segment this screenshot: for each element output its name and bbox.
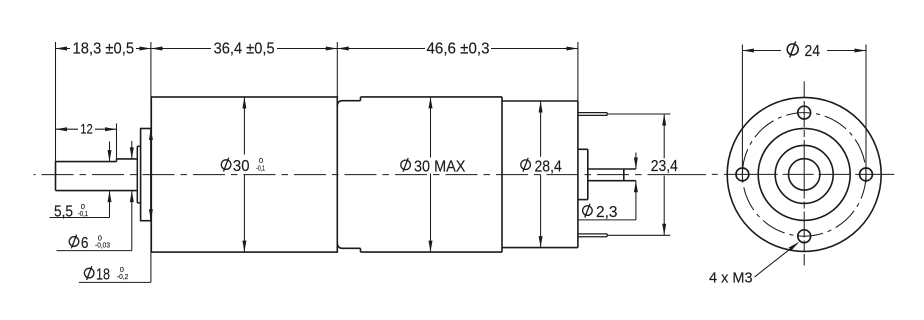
dimension dia 18 0/-0,2 flange [149, 129, 153, 141]
rear shaft stub dia 2.3 [588, 168, 636, 170]
mounting hole bottom M3 [798, 230, 811, 243]
dimension 23,4 terminal span [607, 113, 670, 115]
motor rear dia 28.4 section [502, 100, 578, 102]
motor neck with rounded corners [337, 101, 360, 106]
rear bearing boss [578, 148, 588, 150]
dimension 18,3 +-0,5 [56, 48, 151, 50]
svg-text:46,6 ±0,3: 46,6 ±0,3 [427, 41, 490, 58]
bottom terminal tab [578, 233, 607, 235]
mounting hole right M3 [860, 168, 873, 181]
front view shaft circle dia 6 [789, 159, 820, 190]
dimension 36,4 +-0,5 [151, 48, 337, 50]
front view outer circle dia 30 [727, 97, 881, 251]
svg-text:2,3: 2,3 [596, 204, 618, 221]
svg-text:30: 30 [233, 158, 250, 175]
dimension dia 6 0/-0,03 shaft [131, 141, 133, 159]
dimension dia 2,3 rear shaft [635, 153, 637, 170]
output shaft full dia section [117, 158, 138, 160]
front view vertical centerline [803, 81, 805, 265]
front flange plate dia 18 [141, 129, 151, 221]
svg-text:-0,1: -0,1 [256, 163, 265, 172]
dimension 5,5 0/-0,1 shaft flat height [109, 142, 111, 162]
front view collar circle [775, 145, 833, 203]
output shaft flat section (12mm, 5.5 height) [56, 161, 117, 163]
extension line at shaft tip [55, 42, 57, 162]
dimension 46,6 +-0,3 [337, 48, 578, 50]
gearbox housing dia 30 [151, 97, 337, 252]
front view horizontal centerline [712, 173, 895, 175]
dimension dia 30 0/-0,1 gearbox [243, 97, 245, 155]
svg-text:24: 24 [805, 43, 821, 60]
front view flange circle dia 18 [758, 128, 850, 220]
svg-text:30 MAX: 30 MAX [414, 159, 466, 176]
dimension 12 of shaft flat [56, 128, 117, 130]
dimension dia 24 bolt circle [741, 45, 743, 183]
shaft collar washer [136, 146, 138, 203]
dimension dia 28,4 rear section [540, 101, 542, 157]
svg-text:12: 12 [80, 121, 93, 137]
motor body dia 30 MAX section [361, 96, 503, 98]
extension line motor rear face [577, 42, 579, 101]
mounting hole left M3 [736, 168, 749, 181]
top terminal tab [578, 112, 607, 114]
svg-text:-0,1: -0,1 [78, 209, 88, 218]
svg-text:5,5: 5,5 [54, 203, 73, 220]
svg-text:4 x M3: 4 x M3 [709, 269, 753, 286]
svg-text:28,4: 28,4 [535, 158, 562, 175]
svg-text:18,3 ±0,5: 18,3 ±0,5 [73, 41, 135, 58]
centerline of side view [34, 174, 642, 176]
mounting hole top M3 [798, 106, 811, 119]
svg-text:18: 18 [96, 267, 110, 284]
extension line gearbox/motor joint [336, 42, 338, 97]
svg-text:36,4 ±0,5: 36,4 ±0,5 [214, 41, 275, 58]
bolt circle dia 24 dashed [742, 113, 866, 237]
svg-text:-0,2: -0,2 [117, 272, 128, 281]
dimension dia 30 MAX motor [430, 97, 432, 158]
svg-text:23,4: 23,4 [651, 158, 678, 175]
svg-text:6: 6 [81, 235, 89, 252]
svg-text:-0,03: -0,03 [95, 241, 110, 250]
extension line gearbox front face / dia18 dim line [150, 42, 152, 282]
